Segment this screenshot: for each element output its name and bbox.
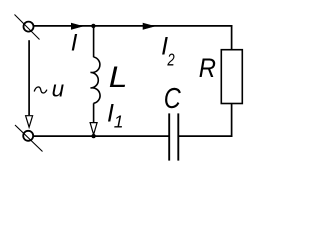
- svg-text:1: 1: [114, 112, 124, 132]
- wire: capacitor to bottom-left (through I1 junction): [33, 135, 169, 137]
- svg-text:R: R: [199, 52, 216, 83]
- arrow of current I (filled, on top wire): [71, 23, 82, 29]
- svg-text:L: L: [109, 61, 128, 94]
- resistor R (rectangle): [221, 50, 242, 104]
- wire: inductor down to I1 arrow: [93, 103, 95, 122]
- arrow for voltage u (open triangle pointing down to X2): [26, 116, 33, 128]
- arrow for current I1 (open triangle pointing down): [90, 123, 97, 135]
- svg-text:C: C: [164, 83, 181, 115]
- node A (top junction dot): [91, 24, 95, 28]
- arrow of current I2 (filled, on top wire): [143, 23, 154, 29]
- terminal X2 (bottom-left input terminal with slash): [15, 125, 43, 152]
- ~ sine symbol of source: [34, 87, 47, 93]
- terminal X1 (top-left input terminal with slash): [15, 15, 40, 40]
- inductor L (three-arc coil): [91, 57, 101, 103]
- wire: top horizontal from X1 to top-right corner: [34, 25, 233, 27]
- wire: left vertical below X1: [28, 40, 30, 115]
- wire: resistor down to bottom-right corner: [231, 103, 233, 137]
- svg-text:u: u: [52, 77, 65, 102]
- wire: junction down to inductor: [93, 26, 95, 57]
- node B (bottom junction dot): [91, 134, 95, 138]
- capacitor C (two plates): [169, 113, 178, 160]
- svg-text:2: 2: [167, 50, 175, 70]
- wire: right vertical from top corner to resistor: [231, 25, 233, 50]
- wire: bottom horizontal from right corner to capacitor: [178, 135, 232, 137]
- svg-text:I: I: [71, 30, 78, 57]
